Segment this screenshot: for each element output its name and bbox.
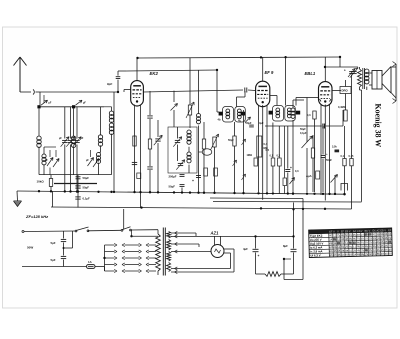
svg-text:DRO: DRO bbox=[342, 89, 349, 93]
svg-text:50µF: 50µF bbox=[246, 121, 252, 125]
svg-text:+: + bbox=[290, 166, 292, 170]
svg-text:0,3: 0,3 bbox=[295, 170, 299, 173]
svg-text:50µF: 50µF bbox=[83, 186, 90, 190]
svg-text:+: + bbox=[326, 152, 328, 156]
svg-text:10kΩ: 10kΩ bbox=[37, 180, 45, 184]
svg-text:EF: EF bbox=[388, 229, 392, 232]
svg-text:50µF: 50µF bbox=[300, 128, 306, 131]
svg-text:3,5k: 3,5k bbox=[332, 146, 337, 149]
svg-text:0,1µF: 0,1µF bbox=[83, 197, 90, 201]
svg-text:+: + bbox=[192, 179, 194, 183]
svg-text:50µF: 50µF bbox=[326, 158, 332, 162]
svg-text:EK2: EK2 bbox=[150, 71, 159, 76]
svg-text:EF 9: EF 9 bbox=[265, 70, 275, 75]
svg-text:5µF: 5µF bbox=[51, 258, 56, 262]
svg-text:60: 60 bbox=[389, 252, 393, 256]
svg-text:02: 02 bbox=[388, 236, 392, 240]
svg-text:0,4MΩ: 0,4MΩ bbox=[338, 105, 346, 109]
svg-text:+: + bbox=[258, 254, 260, 258]
svg-text:200µF: 200µF bbox=[169, 175, 177, 179]
svg-text:0,5: 0,5 bbox=[266, 149, 270, 152]
svg-text:5µF: 5µF bbox=[51, 241, 56, 245]
svg-text:0,2: 0,2 bbox=[277, 155, 281, 158]
svg-text:0,3: 0,3 bbox=[307, 114, 311, 117]
svg-text:Koenig 38 W: Koenig 38 W bbox=[374, 104, 383, 148]
svg-text:50W: 50W bbox=[27, 246, 33, 250]
svg-text:75: 75 bbox=[388, 244, 392, 248]
svg-text:0,4: 0,4 bbox=[264, 142, 268, 146]
svg-text:50µF: 50µF bbox=[169, 185, 176, 189]
svg-text:66: 66 bbox=[388, 232, 392, 236]
svg-text:AZ1: AZ1 bbox=[210, 231, 220, 236]
svg-text:50pF: 50pF bbox=[228, 139, 234, 142]
svg-text:4µF: 4µF bbox=[243, 247, 248, 251]
svg-text:35: 35 bbox=[389, 248, 393, 252]
svg-text:50µF: 50µF bbox=[83, 176, 90, 180]
svg-text:0,1µF: 0,1µF bbox=[300, 132, 307, 135]
svg-text:4µF: 4µF bbox=[259, 121, 264, 125]
svg-text:0,1: 0,1 bbox=[341, 155, 345, 158]
svg-text:4b: 4b bbox=[218, 118, 221, 122]
svg-text:AµA: AµA bbox=[306, 174, 312, 178]
svg-text:8µF: 8µF bbox=[283, 244, 288, 248]
svg-text:1MΩ: 1MΩ bbox=[247, 154, 252, 157]
svg-text:ZF=128 kHz: ZF=128 kHz bbox=[25, 214, 48, 219]
svg-text:Uf 6,3 V: Uf 6,3 V bbox=[310, 253, 320, 257]
svg-text:EBL1: EBL1 bbox=[305, 71, 316, 76]
svg-text:9pF: 9pF bbox=[107, 82, 113, 86]
